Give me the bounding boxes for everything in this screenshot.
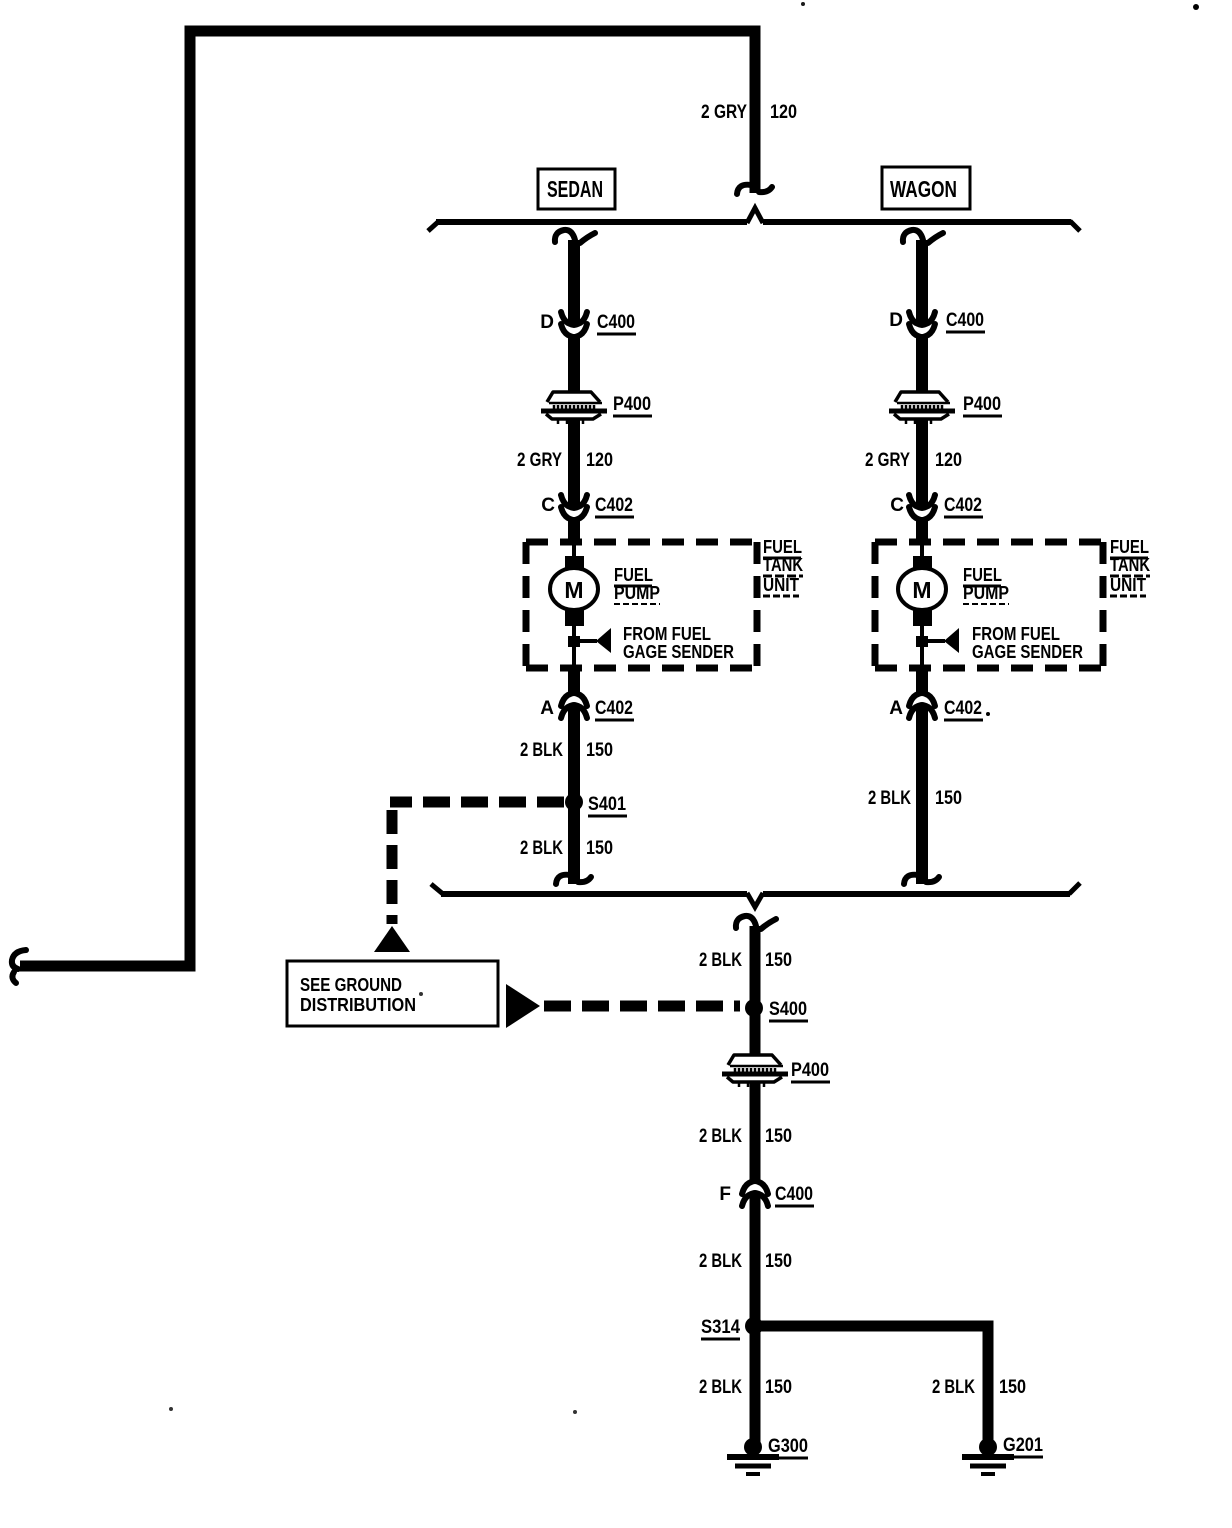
- svg-text:150: 150: [765, 1251, 792, 1272]
- svg-text:2 BLK: 2 BLK: [699, 1126, 742, 1147]
- svg-text:150: 150: [765, 1377, 792, 1398]
- svg-text:150: 150: [999, 1377, 1026, 1398]
- svg-text:2 BLK: 2 BLK: [520, 740, 563, 761]
- svg-text:C: C: [890, 495, 904, 516]
- svg-text:2 BLK: 2 BLK: [868, 788, 911, 809]
- svg-text:2 BLK: 2 BLK: [520, 838, 563, 859]
- svg-text:TANK: TANK: [1110, 555, 1150, 575]
- svg-text:A: A: [540, 698, 554, 719]
- svg-text:FUEL: FUEL: [763, 537, 802, 557]
- svg-text:C402: C402: [944, 495, 982, 516]
- svg-text:FROM FUEL: FROM FUEL: [972, 624, 1060, 644]
- svg-text:G201: G201: [1003, 1435, 1043, 1456]
- svg-text:UNIT: UNIT: [1110, 575, 1146, 595]
- svg-text:2 GRY: 2 GRY: [865, 450, 910, 471]
- svg-text:PUMP: PUMP: [963, 583, 1009, 603]
- svg-text:DISTRIBUTION: DISTRIBUTION: [300, 995, 416, 1015]
- svg-text:C: C: [541, 495, 555, 516]
- svg-text:P400: P400: [963, 394, 1001, 415]
- svg-text:FROM FUEL: FROM FUEL: [623, 624, 711, 644]
- svg-text:C400: C400: [775, 1184, 813, 1205]
- svg-text:GAGE SENDER: GAGE SENDER: [972, 642, 1083, 662]
- svg-text:150: 150: [935, 788, 962, 809]
- svg-text:2 BLK: 2 BLK: [699, 1377, 742, 1398]
- svg-text:A: A: [889, 698, 903, 719]
- svg-text:D: D: [540, 312, 554, 333]
- svg-text:C402: C402: [595, 698, 633, 719]
- svg-text:2 BLK: 2 BLK: [699, 950, 742, 971]
- svg-text:2 BLK: 2 BLK: [699, 1251, 742, 1272]
- svg-text:120: 120: [770, 102, 797, 123]
- svg-text:FUEL: FUEL: [1110, 537, 1149, 557]
- svg-text:150: 150: [765, 950, 792, 971]
- svg-text:150: 150: [586, 740, 613, 761]
- svg-text:S400: S400: [769, 999, 807, 1020]
- svg-text:P400: P400: [791, 1060, 829, 1081]
- svg-text:120: 120: [935, 450, 962, 471]
- svg-text:TANK: TANK: [763, 555, 803, 575]
- svg-text:WAGON: WAGON: [890, 176, 957, 202]
- svg-text:2 BLK: 2 BLK: [932, 1377, 975, 1398]
- svg-text:C402: C402: [944, 698, 982, 719]
- svg-text:GAGE SENDER: GAGE SENDER: [623, 642, 734, 662]
- svg-text:P400: P400: [613, 394, 651, 415]
- svg-text:C400: C400: [946, 310, 984, 331]
- svg-text:D: D: [889, 310, 903, 331]
- svg-text:SEDAN: SEDAN: [547, 176, 603, 202]
- svg-text:C400: C400: [597, 312, 635, 333]
- svg-text:SEE GROUND: SEE GROUND: [300, 975, 402, 995]
- svg-text:C402: C402: [595, 495, 633, 516]
- svg-text:2 GRY: 2 GRY: [517, 450, 562, 471]
- svg-text:S314: S314: [701, 1317, 740, 1338]
- svg-text:150: 150: [765, 1126, 792, 1147]
- svg-text:UNIT: UNIT: [763, 575, 799, 595]
- svg-text:120: 120: [586, 450, 613, 471]
- svg-text:G300: G300: [768, 1436, 808, 1457]
- svg-text:FUEL: FUEL: [614, 565, 653, 585]
- svg-text:F: F: [719, 1184, 731, 1205]
- svg-text:PUMP: PUMP: [614, 583, 660, 603]
- svg-text:S401: S401: [588, 794, 626, 815]
- svg-text:150: 150: [586, 838, 613, 859]
- svg-text:2 GRY: 2 GRY: [701, 102, 747, 123]
- svg-text:FUEL: FUEL: [963, 565, 1002, 585]
